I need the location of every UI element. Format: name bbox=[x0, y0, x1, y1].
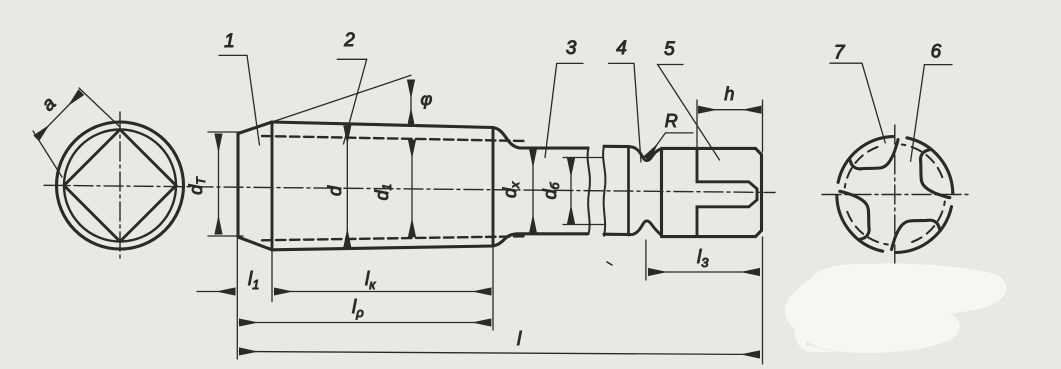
phi angle arrow bbox=[410, 80, 412, 127]
dx dimension arrow bbox=[532, 149, 534, 233]
inner circle bbox=[64, 130, 176, 242]
svg-text:6: 6 bbox=[931, 42, 942, 63]
smudge whiteout blob bbox=[785, 263, 1006, 352]
dT dimension bbox=[208, 132, 243, 236]
leader 5 bbox=[658, 65, 720, 161]
shank top after break bbox=[604, 145, 629, 148]
square block outline bbox=[662, 148, 762, 236]
right circle vertical centerline bbox=[894, 125, 896, 266]
flute curve 4 bbox=[840, 191, 869, 240]
svg-text:1: 1 bbox=[224, 31, 235, 52]
h arrow line bbox=[699, 109, 762, 111]
left face bbox=[236, 134, 239, 238]
h dimension bbox=[697, 100, 763, 152]
tap body bbox=[238, 75, 762, 250]
extension at 646 bbox=[645, 240, 647, 280]
left circle group bbox=[33, 88, 184, 259]
lp dimension bbox=[239, 322, 490, 324]
dashed root arcs bbox=[845, 145, 945, 245]
break line 2 bbox=[603, 146, 605, 236]
dT extension bottom bbox=[208, 235, 243, 237]
dimension a line with arrows bbox=[37, 93, 82, 139]
dimension a extension line 1 bbox=[33, 131, 62, 177]
h extension right bbox=[762, 100, 764, 152]
neck fillet top bbox=[493, 128, 588, 149]
svg-text:φ: φ bbox=[421, 89, 433, 109]
flute curve 1 bbox=[849, 140, 898, 169]
db dimension arrow bbox=[570, 159, 572, 224]
svg-text:3: 3 bbox=[566, 38, 577, 59]
top edge of thread body bbox=[272, 122, 493, 128]
svg-text:R: R bbox=[665, 111, 678, 131]
waist top profile bbox=[629, 147, 662, 161]
svg-text:d: d bbox=[325, 185, 345, 196]
left circle vertical centerline bbox=[119, 112, 121, 259]
dimension a extension line 2 bbox=[79, 88, 120, 127]
dT extension top bbox=[208, 131, 243, 133]
rim arcs bbox=[837, 137, 953, 253]
slot end vertical bbox=[756, 189, 759, 200]
right circle horizontal centerline bbox=[822, 194, 968, 196]
thread root dashed line top bbox=[262, 136, 525, 141]
lK dimension bbox=[274, 291, 491, 293]
thread root dashed line bottom bbox=[262, 236, 525, 240]
vertical line between chamfer and thread bbox=[271, 122, 274, 250]
h extension left bbox=[696, 100, 698, 148]
db extension lines bbox=[563, 158, 604, 225]
dT arrow bbox=[218, 134, 220, 234]
groove shoulder vertical bbox=[627, 147, 630, 235]
l1 dimension bbox=[197, 291, 235, 293]
svg-text:5: 5 bbox=[664, 39, 675, 60]
small speck bbox=[607, 262, 612, 265]
d dimension arrow bbox=[346, 126, 348, 248]
extension at 762 bbox=[762, 237, 764, 364]
bottom chamfer edge bbox=[238, 237, 272, 250]
leader 4 bbox=[609, 63, 642, 162]
d1 dimension arrow bbox=[411, 140, 413, 237]
break line 1 bbox=[588, 148, 590, 235]
vertical line at thread end bbox=[492, 128, 495, 247]
slot lower wall bbox=[697, 200, 757, 237]
extension at 493 bbox=[492, 246, 494, 330]
top chamfer edge bbox=[238, 122, 272, 134]
l3 dimension bbox=[648, 271, 759, 273]
extension at 237 bbox=[236, 239, 238, 359]
outer circle bbox=[57, 122, 184, 249]
leader 1 bbox=[219, 55, 260, 145]
leader 3 bbox=[545, 63, 583, 157]
svg-text:7: 7 bbox=[834, 43, 846, 64]
shank bottom after break bbox=[604, 233, 629, 236]
neck fillet bottom bbox=[493, 234, 588, 246]
leader 6 bbox=[911, 65, 952, 162]
bottom extension lines bbox=[237, 237, 762, 364]
main centerline bbox=[44, 185, 775, 192]
leader 7 bbox=[830, 63, 885, 143]
svg-text:2: 2 bbox=[343, 30, 355, 51]
R leader bbox=[647, 133, 693, 159]
flute curve 2 bbox=[920, 149, 949, 198]
inscribed square bbox=[64, 130, 176, 242]
extension at 272 bbox=[271, 250, 273, 302]
waist bottom profile bbox=[629, 221, 662, 235]
slot upper wall bbox=[697, 148, 757, 188]
svg-text:h: h bbox=[724, 84, 734, 104]
l dimension bbox=[239, 352, 759, 355]
bottom edge of thread body bbox=[272, 246, 493, 250]
chamfer extension thin line to phi bbox=[272, 75, 411, 122]
leader 2 bbox=[337, 59, 366, 144]
flute curve 3 bbox=[892, 220, 941, 249]
right circle group bbox=[822, 125, 968, 266]
svg-text:4: 4 bbox=[616, 38, 627, 59]
